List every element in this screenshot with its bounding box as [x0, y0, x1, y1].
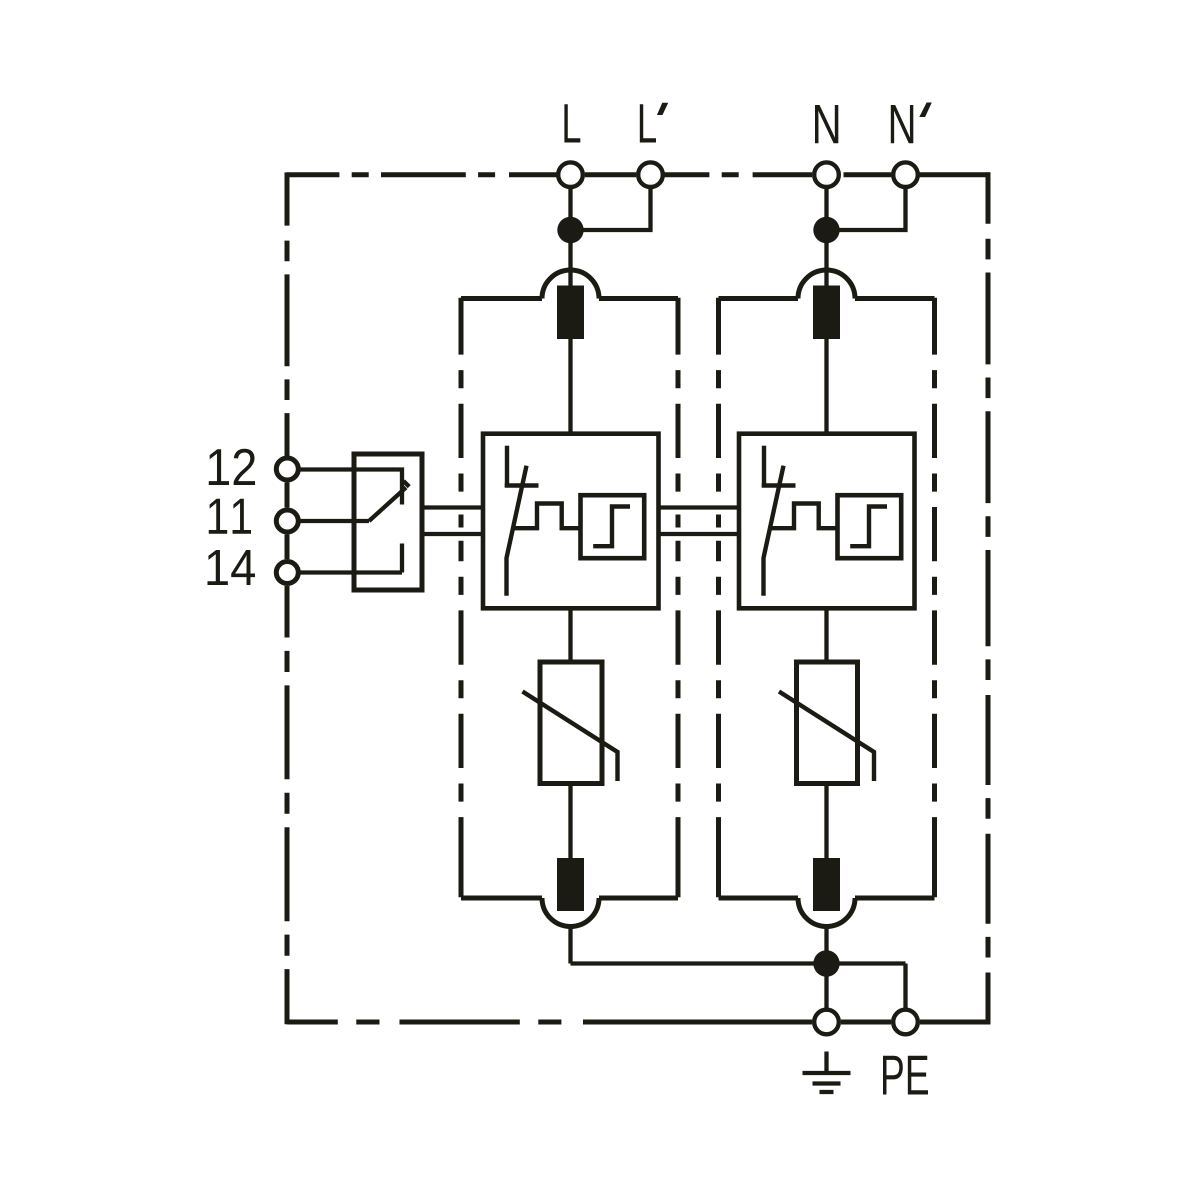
- label L: [564, 104, 580, 142]
- spark gap unit box, right: [739, 434, 915, 609]
- junction dot at L: [557, 217, 583, 243]
- remote signalling switch box: [354, 454, 422, 590]
- varistor diagonal, left: [523, 692, 618, 782]
- trigger box, left: [581, 495, 645, 558]
- inner dashed box, right (N protection path): [719, 298, 935, 898]
- terminal 14: [276, 562, 298, 584]
- link wires left SG to right SG box: [659, 508, 740, 535]
- wire terminal 14 to NO contact: [297, 544, 403, 573]
- varistor rect, left: [540, 662, 602, 784]
- terminal 11: [276, 510, 298, 532]
- wire bottom bus: [571, 964, 906, 1009]
- switch blade barb: [404, 481, 410, 487]
- label N: [815, 105, 838, 143]
- terminal N: [814, 162, 839, 187]
- label L prime mark: [657, 103, 668, 115]
- varistor diagonal, right: [779, 692, 874, 782]
- spark gap symbol, right box: [762, 446, 838, 596]
- wire N' drop: [827, 188, 908, 230]
- terminal PE right: [893, 1010, 918, 1035]
- outer enclosure border : right side: [986, 172, 991, 1024]
- link wires switch to left SG box: [422, 508, 483, 535]
- label 11: [209, 499, 251, 534]
- trigger step symbol, right: [850, 507, 887, 547]
- terminal N': [893, 162, 918, 187]
- terminal 12: [276, 458, 298, 480]
- wire terminal 11 to pivot: [297, 519, 370, 523]
- thermal disconnector arc, bottom right: [798, 898, 855, 927]
- wire L column: [568, 188, 572, 964]
- label N prime mark: [919, 103, 932, 118]
- label 14: [208, 550, 256, 585]
- thermal disconnector element, top right: [813, 286, 840, 340]
- ground symbol bars: [803, 1073, 851, 1092]
- spark gap unit box, left: [483, 434, 659, 609]
- label N prime letter: [891, 105, 914, 143]
- thermal disconnector arc, top right: [798, 270, 855, 299]
- junction dot at N: [813, 217, 839, 243]
- terminal L: [558, 162, 583, 187]
- ground symbol stem: [824, 1052, 828, 1072]
- wire terminal 12 to NC contact: [297, 470, 403, 505]
- wire N column: [824, 188, 828, 1009]
- thermal disconnector arc, bottom left: [542, 898, 599, 927]
- label PE: [883, 1056, 928, 1095]
- terminal L': [638, 162, 663, 187]
- trigger step symbol, left: [593, 507, 630, 547]
- thermal disconnector element, bottom right: [813, 858, 840, 911]
- inner dashed box, left (L protection path): [461, 298, 678, 898]
- outer enclosure border : bottom side: [287, 1020, 990, 1025]
- label L prime letter: [640, 104, 656, 142]
- thermal disconnector arc, top left: [542, 270, 599, 299]
- terminal PE left: [814, 1010, 839, 1035]
- thermal disconnector element, bottom left: [557, 858, 584, 911]
- outer enclosure border : left side: [285, 172, 290, 1024]
- spark gap symbol, left box: [505, 446, 581, 596]
- label 12: [209, 449, 255, 485]
- trigger box, right: [838, 495, 902, 558]
- switch blade: [369, 488, 406, 522]
- outer enclosure border (dash-dot) : top side: [287, 172, 990, 1024]
- varistor rect, right: [797, 662, 858, 784]
- thermal disconnector element, top left: [557, 286, 584, 340]
- junction dot at PE bus: [813, 950, 839, 976]
- wire L' drop: [571, 188, 653, 230]
